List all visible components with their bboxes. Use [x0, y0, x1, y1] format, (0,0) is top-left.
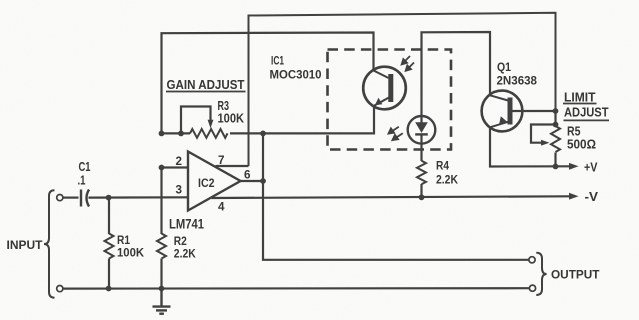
- wire feedback line right segment to phototransistor emitter: [230, 106, 374, 134]
- input brace: [44, 190, 55, 297]
- wire R1 branch lower: [108, 259, 110, 289]
- transistor Q1 collector line: [490, 95, 508, 100]
- wire pin 6 output lead: [241, 180, 264, 182]
- phototransistor circle: [363, 67, 406, 110]
- junction dot C1-R1 node: [106, 195, 112, 201]
- phototransistor collector line: [374, 71, 389, 79]
- wire inner rail right: LED anode to Q1 collector: [422, 32, 491, 116]
- transistor Q1 circle: [482, 91, 523, 132]
- wire R2 to ground rail: [160, 259, 162, 289]
- LED emission arrow 2: [395, 133, 403, 138]
- LED emission arrow 1: [391, 127, 399, 132]
- wire top rail pin7 to LIMIT node: [249, 13, 556, 166]
- resistor R2 2.2K: [157, 234, 166, 259]
- potentiometer R3 wiper arrowhead: [208, 120, 214, 129]
- resistor R1 100K: [105, 234, 114, 259]
- wire LIMIT node to R5 top: [554, 111, 556, 127]
- transistor Q1 emitter line: [490, 122, 508, 128]
- junction dot +V node: [553, 164, 559, 170]
- LED anode wire inside circle: [420, 116, 422, 123]
- potentiometer R5 wiper loop: [531, 125, 556, 143]
- op-amp U-IC2 triangle: [188, 152, 241, 211]
- LED circle: [408, 116, 436, 144]
- LED triangle: [415, 122, 428, 133]
- paper grain overlay: [0, 0, 1, 1]
- wire LED cathode to R4: [420, 135, 422, 161]
- capacitor C1: [81, 190, 89, 207]
- transistor Q1 emitter arrowhead: [499, 116, 507, 124]
- wire Q1 emitter to +V line: [490, 127, 570, 166]
- wire pin2 vertical to R2: [160, 168, 162, 235]
- output terminal top: [529, 257, 535, 263]
- wire C1 to pin 3: [89, 196, 189, 199]
- wire Q1 base: [513, 110, 556, 112]
- junction dot feedback-output: [260, 131, 266, 137]
- resistor R4 2.2K: [417, 161, 426, 185]
- resistor R5 500 ohm zigzag: [551, 126, 560, 152]
- potentiometer R5 wiper arrowhead: [541, 140, 550, 146]
- -V arrowhead: [569, 193, 579, 200]
- junction dot feedback node left: [159, 131, 165, 137]
- underline LIMIT: [563, 103, 597, 105]
- underline ADJUST: [564, 119, 610, 121]
- phototransistor emitter arrowhead: [375, 98, 383, 106]
- phototransistor base bar: [388, 74, 393, 102]
- wire output node vertical to output top line: [263, 133, 529, 259]
- junction dot ground node: [159, 286, 165, 292]
- wire inner rail left: pin2 node to phototransistor collector: [162, 33, 374, 134]
- underline GAIN ADJUST: [166, 91, 246, 93]
- wire R4 to -V rail: [420, 184, 422, 197]
- wire ground rail: [63, 287, 529, 290]
- wire R1 branch upper: [108, 198, 110, 234]
- input terminal bottom: [57, 286, 63, 292]
- ground symbol: [153, 289, 171, 314]
- potentiometer R3 wiper loop: [181, 107, 211, 134]
- wire input line to C1: [63, 197, 79, 199]
- junction dot R3 loop left: [178, 131, 184, 137]
- junction dot R4 to -V: [419, 194, 425, 200]
- wire pin 7 lead: [216, 165, 249, 167]
- LED cathode bar: [415, 133, 428, 135]
- optocoupler IC1 dashed box: [328, 50, 452, 150]
- wire -V rail: [212, 196, 571, 198]
- light arrow 1 into phototransistor: [404, 56, 411, 63]
- transistor Q1 base bar: [508, 98, 513, 125]
- junction dot R1 bottom: [106, 286, 112, 292]
- output brace: [536, 253, 546, 295]
- junction dot LIMIT node: [553, 108, 559, 114]
- +V arrowhead: [569, 163, 579, 170]
- phototransistor emitter line: [374, 98, 389, 106]
- wire feedback line left segment: [162, 132, 191, 134]
- output terminal bottom: [529, 285, 535, 291]
- wire pin 2 lead: [162, 166, 189, 168]
- wire R5 bottom to +V junction: [554, 153, 556, 167]
- junction dot pin 2: [159, 165, 165, 171]
- resistor R3 100K zigzag: [190, 129, 227, 138]
- light arrow 2 into phototransistor: [408, 63, 415, 70]
- input terminal top: [57, 195, 63, 201]
- junction dot pin 6 output: [260, 178, 266, 184]
- junction dot R5 wiper tap: [553, 122, 559, 128]
